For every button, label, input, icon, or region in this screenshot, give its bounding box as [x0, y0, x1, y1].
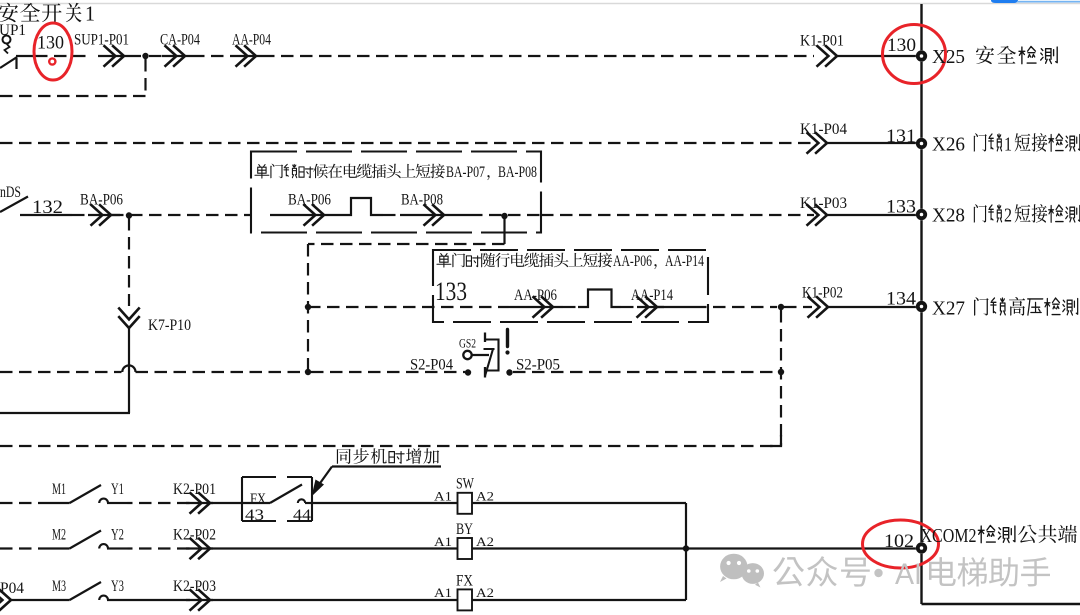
svg-text:131: 131: [886, 126, 916, 147]
svg-text:XCOM2: XCOM2: [921, 525, 977, 547]
wire AA-P04 to K1-P01 (long dashed): [262, 55, 814, 57]
label X28 门锁2短接检测: [932, 204, 1080, 226]
svg-text:130: 130: [887, 35, 916, 56]
connector BA-P06 (in box): [270, 192, 331, 226]
svg-text:M1: M1: [52, 481, 66, 498]
svg-text:A1: A1: [434, 534, 452, 549]
svg-text:A2: A2: [476, 534, 494, 549]
net label 133 (right): [886, 197, 916, 218]
terminal X26: [916, 138, 927, 149]
pin S2-P04: [410, 357, 471, 376]
svg-text:132: 132: [32, 197, 63, 218]
wire K2-P01 to FX box: [210, 502, 242, 504]
label X25 安全检测: [932, 46, 1057, 68]
svg-text:FX: FX: [250, 491, 266, 508]
label X27 门锁高压检测: [932, 297, 1078, 320]
wire coil FX to right joiner: [472, 599, 686, 601]
wire K2-P03 to coil FX: [210, 599, 458, 601]
svg-text:2: 2: [1004, 205, 1012, 227]
wire SUP1 to node 130: [16, 55, 92, 57]
wire K1-P03 to terminal X28: [827, 214, 917, 216]
svg-text:GS2: GS2: [459, 337, 476, 351]
net label 132: [32, 197, 63, 218]
svg-text:1: 1: [85, 2, 95, 26]
connector K7-P10 (downward): [118, 308, 191, 335]
svg-text:133: 133: [435, 277, 467, 306]
node junction 308/372: [305, 369, 311, 375]
wire CA-P04 to AA-P04: [192, 55, 234, 57]
svg-text:X25: X25: [932, 46, 965, 68]
red highlight circle around right 130: [883, 25, 946, 84]
node junction in BA box: [501, 213, 507, 219]
connector P04 (left edge): [0, 580, 24, 611]
wire K1-P02 to terminal X27: [828, 306, 917, 308]
terminal X25: [916, 50, 927, 61]
switch M3: [52, 578, 124, 600]
coil BY: [434, 521, 494, 559]
svg-text:43: 43: [245, 507, 264, 524]
shorting pulse link BA: [330, 198, 383, 215]
wire K1-P04 to terminal X26: [827, 142, 917, 144]
svg-text:K1-P01: K1-P01: [800, 33, 844, 50]
coil FX: [434, 573, 494, 611]
wire P04 to M3: [11, 599, 70, 601]
svg-text:BA-P08: BA-P08: [498, 164, 537, 181]
svg-text:K1-P03: K1-P03: [800, 195, 847, 212]
connector K2-P03: [107, 578, 216, 611]
wire FX box to coil SW: [312, 502, 458, 504]
wire right joiner vertical: [685, 503, 687, 600]
connector AA-P06: [510, 287, 563, 318]
wire BA row to K1-P03: [541, 214, 814, 216]
svg-text:Y2: Y2: [111, 527, 124, 544]
red highlight ellipse around 102: [863, 520, 939, 568]
wire return row (dashed): [0, 435, 781, 446]
svg-text:1: 1: [1004, 134, 1012, 156]
svg-text:AI: AI: [895, 558, 922, 591]
svg-text:A2: A2: [476, 489, 494, 504]
svg-text:BA-P07: BA-P07: [446, 164, 485, 181]
svg-text:X28: X28: [932, 205, 965, 227]
switch M1: [0, 481, 124, 503]
wire left vertical x=308: [307, 244, 309, 372]
node junction at 129: [111, 212, 251, 218]
switch SUP1 label: [0, 22, 26, 39]
wire junction down to AA row: [308, 216, 505, 244]
connector AA-P04: [232, 32, 271, 67]
svg-text:M3: M3: [52, 578, 66, 595]
connector BA-P06 (left): [80, 192, 123, 226]
wire junction to CA-P04: [149, 55, 166, 57]
shorting pulse link AA: [578, 290, 621, 308]
wire junction to K1-P02: [784, 306, 812, 308]
connector K1-P02: [802, 285, 843, 318]
node junction 781/307: [778, 304, 784, 310]
wire DS to 132: [20, 214, 72, 216]
bus line XCOM vertical: [920, 4, 922, 604]
net label 102: [884, 531, 914, 552]
wire row S2 (dashed) with hop: [0, 365, 306, 372]
connector K1-P01: [800, 33, 844, 67]
note text 单门锁时候在电缆插头上短接BA-P07，BA-P08: [255, 164, 537, 181]
svg-text:A2: A2: [476, 585, 494, 600]
node junction 686/548: [683, 545, 689, 551]
coil SW: [434, 476, 494, 514]
svg-text:nDS: nDS: [0, 184, 21, 201]
wire coil BY to terminal XCOM2: [472, 547, 917, 549]
red highlight dot on wire: [49, 58, 55, 64]
node junction 781/372: [778, 369, 784, 375]
svg-text:AA-P14: AA-P14: [665, 253, 704, 270]
switch M2: [0, 527, 124, 549]
svg-text:K7-P10: K7-P10: [148, 317, 191, 334]
connector BA-P08: [383, 192, 451, 226]
net label 134: [886, 289, 917, 310]
wire coil SW to right joiner: [473, 502, 687, 504]
wire junction 781 down to row 446: [780, 310, 782, 446]
wire BA-P06 node down to K7-P10: [128, 218, 130, 306]
frame border bottom right: [922, 603, 1080, 606]
wire 132 to BA-P06: [72, 214, 88, 216]
svg-text:S2-P04: S2-P04: [410, 357, 453, 374]
svg-text:K1-P04: K1-P04: [800, 121, 847, 138]
svg-text:SW: SW: [456, 476, 474, 493]
svg-text:BA-P08: BA-P08: [401, 192, 443, 209]
svg-text:AA-P06: AA-P06: [613, 253, 652, 270]
svg-text:X26: X26: [932, 134, 965, 156]
svg-text:130: 130: [37, 33, 64, 54]
switch DS: [0, 184, 28, 212]
annotation box BA (单门锁): [251, 152, 541, 233]
label X26 门锁1短接检测: [932, 133, 1080, 155]
svg-text:M2: M2: [52, 527, 66, 544]
svg-text:44: 44: [293, 507, 311, 524]
net label 130 (right): [887, 35, 916, 56]
wire AA-P14 out of box: [657, 306, 777, 308]
connector K2-P01: [107, 481, 216, 514]
svg-text:AA-P06: AA-P06: [514, 287, 557, 304]
svg-text:BY: BY: [456, 521, 473, 538]
warning mark !: [505, 330, 509, 355]
blue progress pill top right: [991, 0, 1080, 3]
title 安全开关1: [0, 2, 95, 26]
browser top hairline: [0, 3, 1080, 5]
connector AA-P14: [621, 287, 673, 318]
label XCOM2检测公共端: [921, 525, 1077, 547]
node junction 308/307: [305, 304, 311, 310]
terminal X28: [916, 209, 927, 220]
svg-text:134: 134: [886, 289, 917, 310]
switch GS2: [459, 333, 499, 378]
connector SUP1-P01: [74, 32, 141, 67]
svg-text:Y3: Y3: [111, 578, 124, 595]
svg-text:BA-P06: BA-P06: [288, 192, 331, 209]
terminal XCOM2: [916, 542, 927, 553]
watermark text 公众号·AI电梯助手: [773, 556, 1050, 591]
note text 单门时随行电缆插头上短接AA-P06，AA-P14: [437, 253, 704, 270]
callout 同步机时增加: [312, 448, 442, 496]
node junction at 145: [142, 53, 148, 59]
pin S2-P05: [506, 357, 560, 376]
svg-text:A1: A1: [434, 489, 452, 504]
wire K7-P10 down and left (solid L): [0, 328, 130, 413]
auxiliary contact box FX 43/44: [242, 477, 312, 524]
terminal X27: [916, 301, 927, 312]
net label 133 (in box): [435, 277, 467, 306]
wire row X26 (long dashed): [0, 142, 814, 144]
wire BA-P08 to junction: [451, 214, 541, 216]
net label 130 (left): [37, 33, 64, 54]
connector K1-P04: [800, 121, 847, 154]
svg-text:133: 133: [886, 197, 916, 218]
svg-text:A1: A1: [434, 585, 452, 600]
svg-text:102: 102: [884, 531, 914, 552]
switch SUP1 (safety switch): [0, 36, 17, 70]
connector K1-P03: [800, 195, 847, 226]
dashed branch from node down-left: [0, 59, 146, 96]
net label 131: [886, 126, 916, 147]
svg-text:FX: FX: [456, 573, 473, 590]
svg-text:X27: X27: [932, 298, 965, 320]
svg-text:K1-P02: K1-P02: [802, 285, 843, 302]
wire junction into AA box: [308, 306, 510, 308]
wire K2-P02 to coil BY: [210, 547, 458, 549]
connector K2-P02: [107, 527, 216, 560]
svg-text:Y1: Y1: [111, 481, 124, 498]
svg-text:SUP1-P01: SUP1-P01: [74, 32, 129, 49]
wire junction to S2-P04: [311, 371, 465, 373]
red highlight ellipse around 130: [34, 23, 72, 80]
annotation box AA (单门时): [433, 250, 708, 322]
connector CA-P04: [160, 32, 200, 67]
watermark wechat icon: [720, 554, 764, 588]
wire K1-P01 to terminal X25: [837, 55, 917, 57]
wire AA-P06 to pulse: [563, 306, 580, 308]
wire S2-P05 to junction 781: [513, 371, 777, 373]
